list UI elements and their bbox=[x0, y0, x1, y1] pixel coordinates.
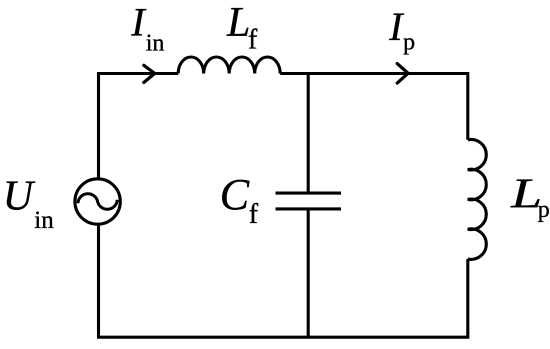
svg-text:in: in bbox=[34, 207, 54, 234]
svg-text:C: C bbox=[220, 170, 250, 219]
svg-text:p: p bbox=[403, 30, 415, 56]
wire top-right segment bbox=[280, 72, 468, 75]
inductor L_p bbox=[468, 139, 486, 259]
svg-text:p: p bbox=[538, 197, 550, 223]
wire right rail upper bbox=[466, 72, 469, 140]
wire right rail lower bbox=[466, 259, 469, 337]
svg-text:f: f bbox=[249, 199, 259, 230]
wire middle rail lower bbox=[307, 209, 310, 337]
svg-text:U: U bbox=[3, 174, 36, 220]
svg-text:L: L bbox=[226, 0, 250, 46]
wire left rail bbox=[97, 72, 100, 337]
inductor L_f bbox=[178, 57, 280, 74]
source U_in circle bbox=[75, 179, 120, 224]
svg-text:in: in bbox=[146, 30, 165, 56]
capacitor C_f bottom plate bbox=[276, 207, 342, 210]
arrow I_in bbox=[144, 65, 155, 82]
svg-text:f: f bbox=[248, 24, 258, 55]
svg-text:I: I bbox=[130, 0, 146, 44]
wire bottom bbox=[97, 336, 469, 339]
svg-text:I: I bbox=[388, 4, 404, 49]
capacitor C_f top plate bbox=[276, 192, 342, 195]
wire top-left segment bbox=[99, 72, 179, 75]
source U_in sine bbox=[78, 194, 117, 210]
wire middle rail upper bbox=[307, 74, 310, 194]
arrow I_p bbox=[397, 64, 408, 84]
